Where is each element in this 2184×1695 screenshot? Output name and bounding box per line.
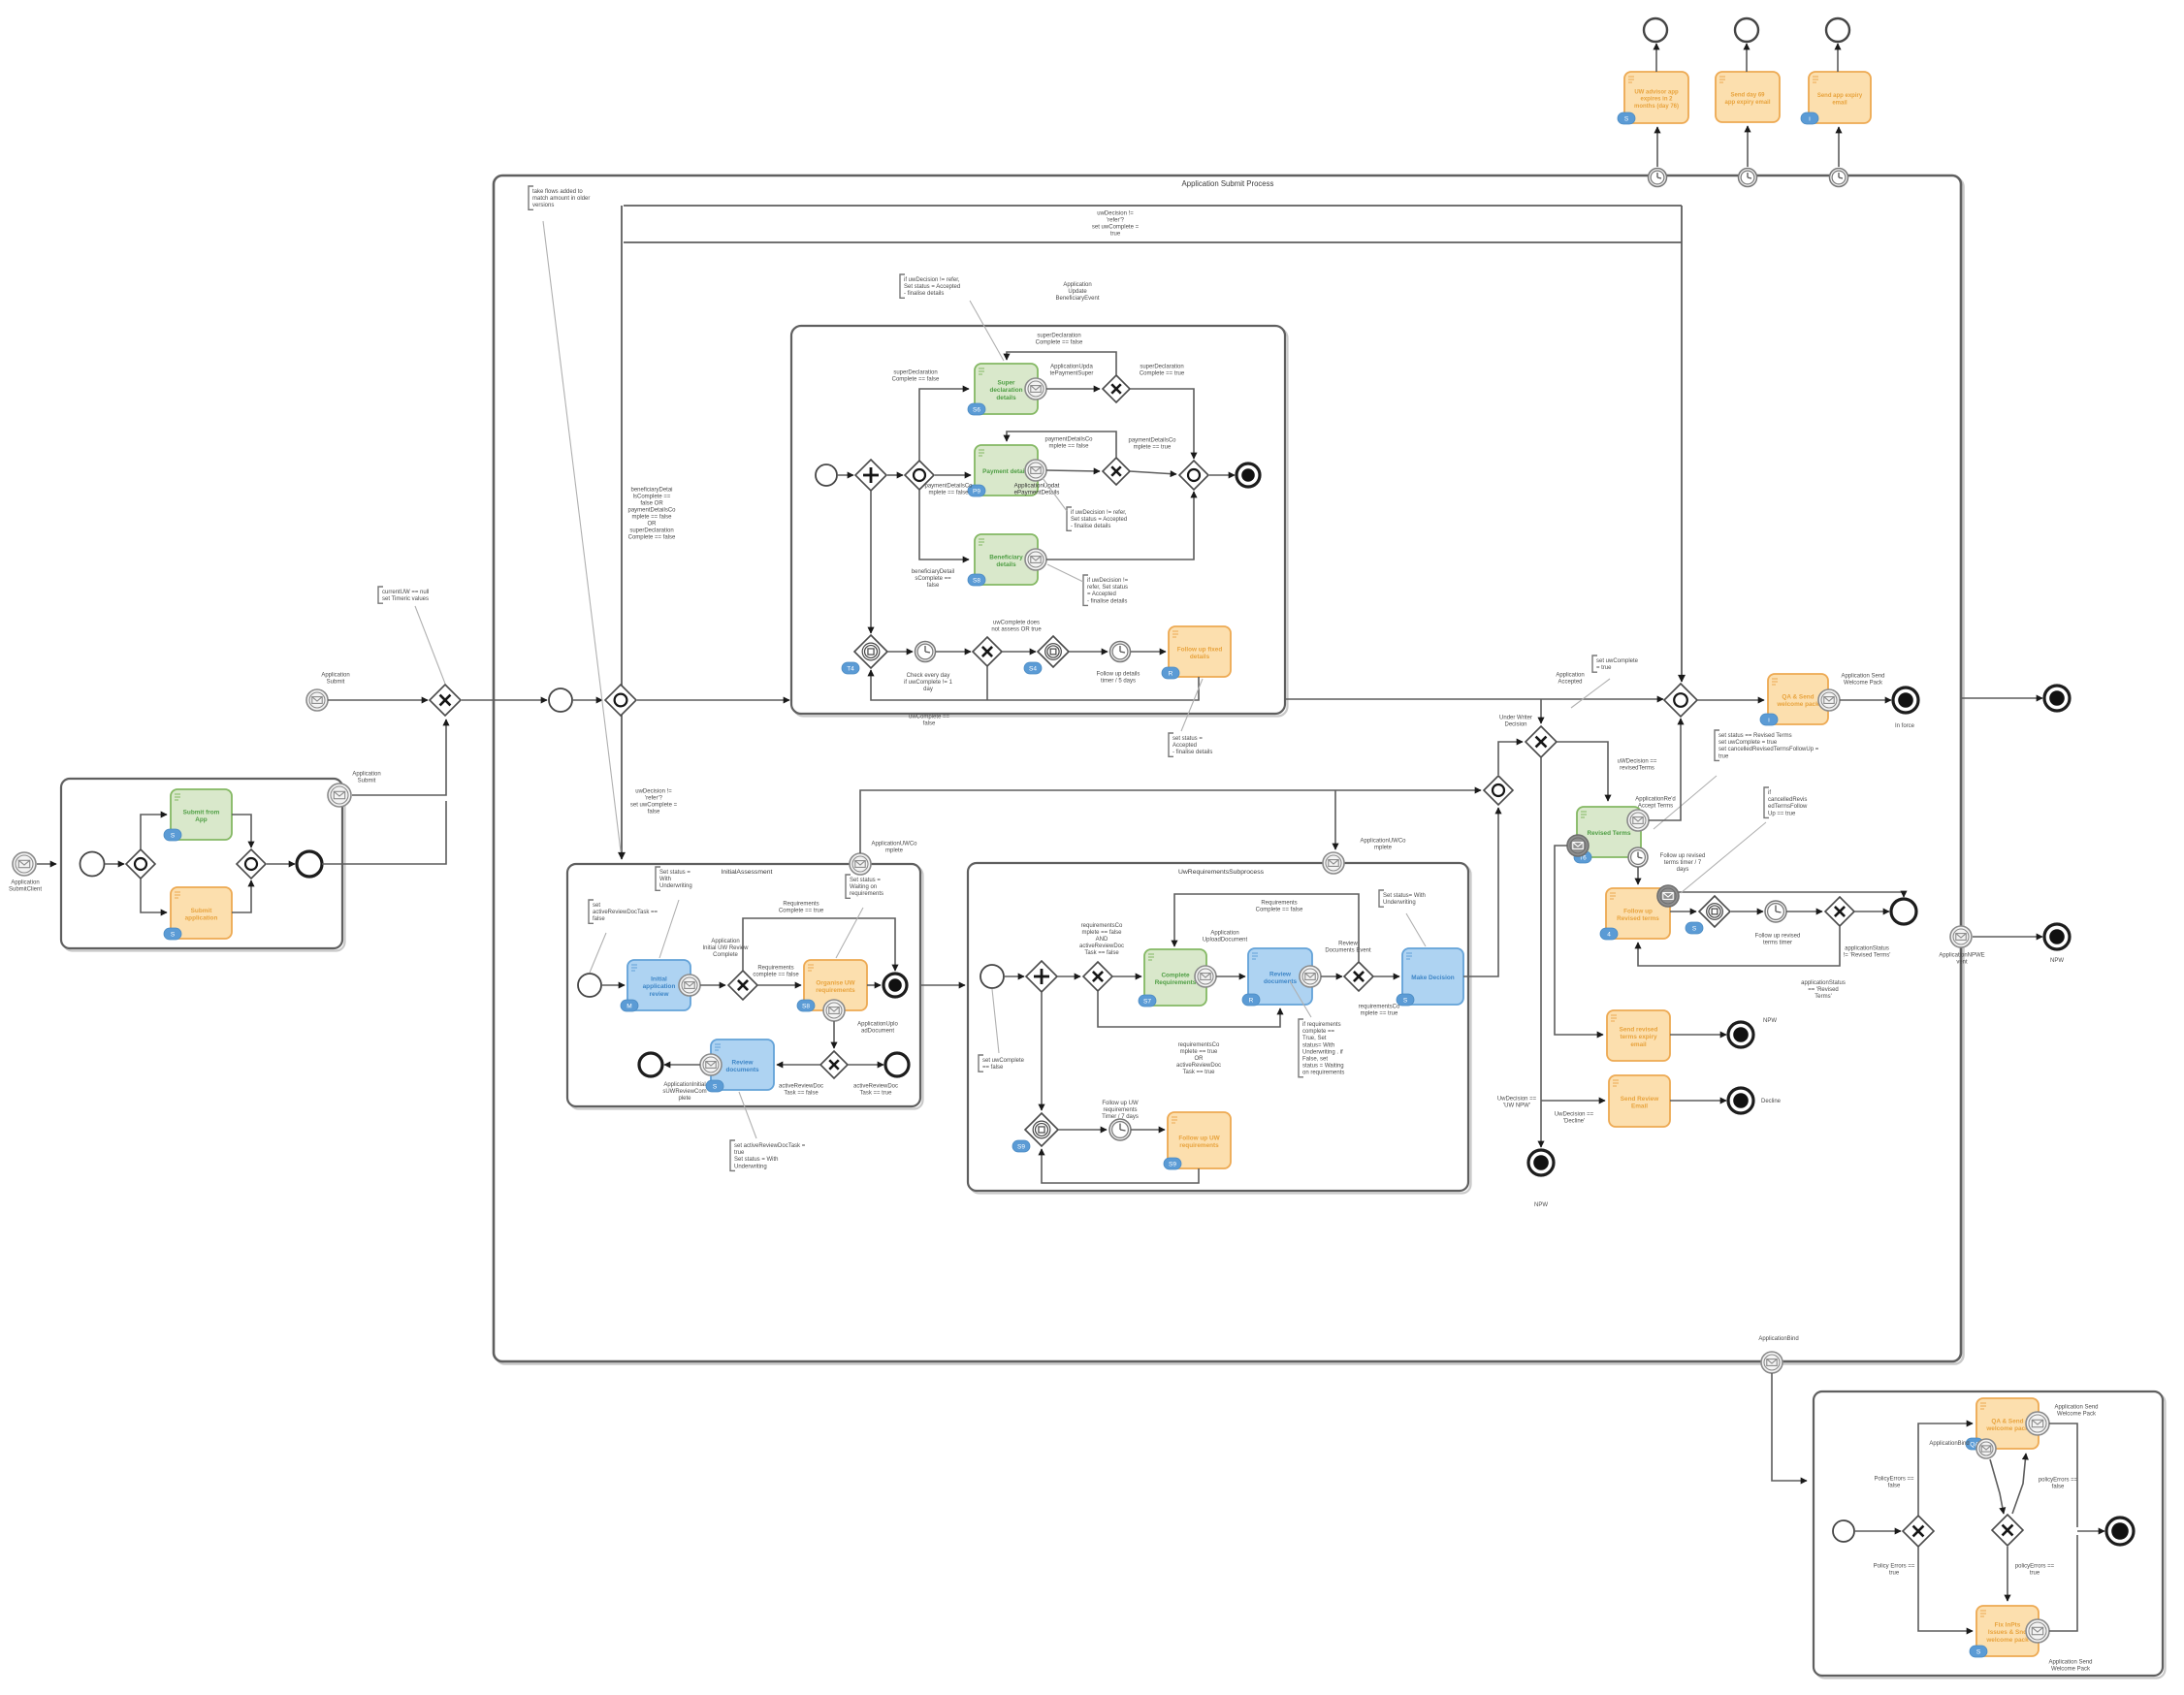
wire decline input (1541, 1100, 1605, 1102)
end event In force (1893, 688, 1918, 713)
message boundary UwReq top (1323, 852, 1344, 874)
wire UwReq loop bottom (1098, 991, 1280, 1027)
wire IA boundary up across (860, 790, 1481, 853)
wire BR xor down (1918, 1547, 1973, 1631)
wire UwReq timer to follow (1131, 1129, 1165, 1131)
gateway xor UwReq 2 (1344, 962, 1373, 991)
wire bottom loop upper (871, 670, 1199, 700)
annotation if cancelledRevisedTermsFollowUp (1764, 787, 1769, 817)
message start event Application Submit main (306, 689, 328, 711)
svg-text:Follow up UWrequirements: Follow up UWrequirements (1178, 1135, 1220, 1149)
message boundary Follow up Revised dark (1657, 885, 1679, 907)
wire UwReq and down (1041, 992, 1043, 1110)
svg-text:superDeclarationComplete == tr: superDeclarationComplete == true (1140, 365, 1185, 377)
timer UwReq (1109, 1119, 1131, 1140)
wire UwReq and to xor (1057, 975, 1080, 977)
assoc take flows to lower (543, 221, 621, 851)
gateway join left box (237, 849, 266, 879)
wire IA xor lower right (848, 1064, 883, 1066)
annotation Set status Waiting on requirements IA (846, 875, 851, 898)
annotation set uwComplete false UwReq (979, 1055, 983, 1071)
svg-text:applicationStatus!= 'Revised T: applicationStatus!= 'Revised Terms' (1844, 946, 1891, 959)
wire merge to end upper (1209, 474, 1235, 476)
annotation if uwDecision refer accepted 1 (1067, 507, 1072, 530)
message boundary UwReq complete (1195, 966, 1216, 987)
task Submit from App (164, 789, 232, 841)
gateway event UwReq (1025, 1113, 1058, 1146)
wire loop row1 (1007, 352, 1116, 375)
wire evtB to timerB (1069, 651, 1108, 653)
wire and down to event gw (870, 491, 872, 633)
svg-text:ApplicationBind: ApplicationBind (1758, 1336, 1798, 1342)
wire green to join (232, 815, 251, 847)
svg-text:Follow up UWrequirementsTimer: Follow up UWrequirementsTimer / 7 days (1102, 1101, 1139, 1120)
task Organise UW requirements (797, 960, 867, 1011)
annotation Set status With Underwriting IA (656, 867, 660, 890)
message boundary Revised Terms left dark (1567, 835, 1589, 856)
message start event Application SubmitClient (13, 852, 36, 876)
wire task to E2 (1746, 44, 1748, 72)
wire loop row2 (1007, 432, 1116, 458)
annotation set activeReviewDocTask true IA (730, 1140, 735, 1170)
wire msg to xor main (328, 699, 428, 701)
wire IA review docs to end (664, 1064, 700, 1066)
end event BR (2106, 1518, 2134, 1545)
wire BR merge to end (2077, 1530, 2104, 1532)
svg-text:i: i (1809, 116, 1810, 123)
wire UwReq start to and (1004, 975, 1024, 977)
assoc note2 to env3 (1047, 564, 1083, 582)
svg-text:QA & Sendwelcome pack: QA & Sendwelcome pack (1985, 1418, 2029, 1432)
assoc revised note (1654, 776, 1717, 829)
message boundary ApplicationBind (1761, 1352, 1783, 1373)
end event NPW bottom (1528, 1150, 1554, 1175)
wire xor bottom drop (986, 666, 988, 700)
wire revised loop back (1638, 926, 1840, 966)
task Submit application (164, 887, 232, 940)
task Beneficiary details (968, 534, 1038, 586)
wire revised env to inclusive east (1649, 719, 1681, 820)
wire drop to uw decision xor (1540, 699, 1542, 723)
assoc note to IA start (590, 933, 606, 973)
message boundary QA task (1818, 689, 1840, 711)
message boundary IA review docs (700, 1054, 722, 1075)
wire evtA to timer (887, 651, 913, 653)
wire right frame vertical (1681, 206, 1683, 682)
end event revised (1891, 899, 1916, 924)
svg-text:QA & Sendwelcome pack: QA & Sendwelcome pack (1776, 693, 1819, 708)
assoc follow task to note (1181, 679, 1203, 731)
svg-text:S: S (171, 833, 176, 840)
task Revised Terms (1574, 807, 1641, 863)
assoc note to review docs (739, 1092, 756, 1138)
subprocess left submit box (64, 782, 345, 951)
timer boundary Revised Terms (1628, 847, 1648, 867)
wire inclusive to upper box (637, 699, 789, 701)
task Complete Requirements (1139, 949, 1206, 1007)
message boundary BR bottom task (2026, 1619, 2049, 1643)
timer upper A (915, 642, 936, 662)
svg-text:requirementsComplete == true: requirementsComplete == true (1359, 1005, 1400, 1017)
svg-text:Requirementscomplete == false: Requirementscomplete == false (753, 966, 799, 978)
task Follow up fixed details (1162, 626, 1231, 679)
wire BR start to xor (1854, 1530, 1901, 1532)
svg-text:Payment details: Payment details (982, 468, 1030, 475)
wire ApplicationBind down (1772, 1373, 1807, 1481)
annotation set activeReviewDocTask false (589, 900, 594, 923)
wire xor into big rect (462, 699, 547, 701)
task Send app expiry email (1801, 72, 1871, 124)
message boundary row3 (1025, 549, 1046, 570)
subprocess bottom right box (1816, 1394, 2166, 1679)
task Review documents UwReq (1242, 948, 1312, 1006)
timer boundary T2 (1739, 169, 1757, 187)
message boundary Application Submit (328, 784, 351, 807)
start event upper box (816, 464, 837, 486)
svg-text:P9: P9 (973, 489, 980, 496)
wire left start to gw (105, 863, 124, 865)
svg-text:S: S (1976, 1649, 1981, 1656)
wire IA to UwReq (920, 984, 965, 986)
gateway xor BR 1 (1903, 1516, 1934, 1547)
wire gw down to orange (141, 879, 167, 912)
wire IA start to task (601, 984, 625, 986)
end event E2 top (1735, 18, 1758, 42)
svg-text:paymentDetailsComplete == true: paymentDetailsComplete == true (1128, 438, 1176, 451)
task Payment details (968, 445, 1038, 496)
wire task to E1 (1655, 44, 1657, 72)
svg-text:R: R (1169, 671, 1173, 678)
svg-text:T4: T4 (847, 666, 854, 673)
assoc notetop to task1 (970, 301, 1004, 361)
end event NPW right (2044, 924, 2070, 949)
start event IA (578, 974, 601, 997)
end event right top (2044, 686, 2070, 711)
annotation set status accepted finalise (1169, 733, 1173, 756)
assoc note to IA task (659, 900, 679, 958)
wire BR xor2 to top task (2012, 1454, 2026, 1514)
start event UwReq (980, 965, 1004, 988)
gateway inclusive merge upper (1179, 461, 1208, 490)
wire left frame vertical (621, 206, 623, 859)
task Follow up Revised terms (1600, 888, 1670, 940)
task Review documents IA (706, 1039, 774, 1092)
wire left box end to xor (322, 801, 446, 864)
wire UwReq green env to blue (1216, 975, 1245, 977)
svg-text:S: S (1692, 926, 1697, 933)
svg-text:beneficiaryDetailsComplete ==f: beneficiaryDetailsComplete ==false ORpay… (627, 488, 676, 541)
gateway inclusive right (1484, 776, 1513, 805)
annotation set status Revised Terms (1715, 730, 1719, 760)
svg-text:RequirementsComplete == false: RequirementsComplete == false (1256, 901, 1303, 913)
svg-text:Revised Terms: Revised Terms (1588, 830, 1631, 837)
end event IA main (883, 974, 907, 997)
wire UwReq follow loop (1042, 1149, 1199, 1183)
assoc note1 to env2 (1043, 478, 1067, 511)
wire join to end (267, 863, 295, 865)
svg-text:NPW: NPW (1763, 1018, 1777, 1024)
task Initial application review (621, 960, 691, 1011)
svg-text:S: S (1624, 116, 1629, 123)
svg-text:S4: S4 (1029, 666, 1037, 673)
start event left box (80, 852, 105, 877)
message boundary row2 (1025, 460, 1046, 481)
task Follow up UW requirements (1164, 1112, 1231, 1169)
svg-text:S9: S9 (1017, 1144, 1025, 1151)
annotation if uwDecision refer accepted top (900, 274, 905, 298)
wire timer to xor bottom (936, 651, 971, 653)
svg-text:S8: S8 (973, 578, 980, 585)
task Fix policy errors send welcome BR (1970, 1606, 2039, 1657)
assoc note to review UwReq (1290, 981, 1311, 1017)
gateway inclusive split upper (905, 461, 934, 490)
wire inclusive east to QA (1697, 699, 1764, 701)
svg-text:Application SendWelcome Pack: Application SendWelcome Pack (2054, 1405, 2098, 1418)
wire expiry to NPW end (1670, 1034, 1726, 1036)
message event ApplicationNPWEvent (1950, 926, 1972, 947)
assoc cancelled note (1681, 822, 1766, 893)
wire xor UWD down to NPW (1540, 757, 1542, 1147)
message boundary IA review (679, 975, 700, 996)
gateway parallel UwReq (1026, 961, 1057, 992)
wire IA organise env down (833, 1021, 835, 1048)
svg-text:S7: S7 (1143, 999, 1151, 1006)
annotation if requirements complete UwReq (1299, 1019, 1303, 1077)
wire or to row3 (919, 490, 969, 560)
wire right edge to end E4 (1961, 697, 2042, 699)
wire BR top task east (2049, 1423, 2077, 1527)
svg-text:UwRequirementsSubprocess: UwRequirementsSubprocess (1178, 869, 1265, 876)
end event Decline (1728, 1088, 1753, 1113)
svg-text:4: 4 (1607, 932, 1611, 939)
wire IA organise to end (867, 984, 881, 986)
assoc annotation to xor (415, 606, 445, 684)
wire BR xor up (1918, 1423, 1973, 1516)
wire xor revised to end (1854, 911, 1889, 912)
end event left box (297, 851, 322, 877)
svg-text:S: S (713, 1084, 718, 1091)
wire T1 to task (1656, 127, 1658, 167)
svg-text:S9: S9 (1169, 1162, 1176, 1168)
svg-text:S: S (1403, 998, 1408, 1005)
timer boundary T1 (1649, 169, 1667, 187)
svg-text:activeReviewDocTask == true: activeReviewDocTask == true (853, 1084, 898, 1097)
wire IA xor lower left (777, 1064, 820, 1066)
wire timerB to follow task (1131, 651, 1166, 653)
svg-text:Organise UWrequirements: Organise UWrequirements (816, 979, 855, 994)
svg-text:ApplicationUpdatePaymentSuper: ApplicationUpdatePaymentSuper (1050, 365, 1094, 377)
wire NPW event to end (1973, 936, 2042, 938)
svg-text:ApplicationUpdatePaymentDetail: ApplicationUpdatePaymentDetails (1014, 482, 1060, 496)
svg-text:ApplicationAccepted: ApplicationAccepted (1556, 673, 1584, 686)
wire BR xor2 down (2007, 1547, 2008, 1601)
assoc note to make decision (1406, 913, 1426, 946)
end event NPW mid (1728, 1022, 1753, 1047)
gateway xor Under Writer Decision (1526, 726, 1557, 757)
wire upper start to and (837, 474, 853, 476)
svg-text:ApplicationUploadDocument: ApplicationUploadDocument (857, 1022, 898, 1035)
svg-text:Application Submit Process: Application Submit Process (1182, 179, 1274, 188)
gateway xor UwReq (1083, 962, 1112, 991)
wire IA env to xor (700, 984, 725, 986)
svg-text:NPW: NPW (2050, 958, 2064, 964)
message boundary Revised Terms right (1627, 810, 1649, 831)
svg-text:superDeclarationComplete == fa: superDeclarationComplete == false (892, 370, 940, 383)
svg-text:M: M (626, 1004, 631, 1010)
wire inclusive to xor UWD (1498, 742, 1523, 775)
annotation take flows added (529, 186, 533, 209)
wire xor to evtB (1002, 651, 1036, 653)
wire or to row1 (919, 389, 969, 461)
assoc note to accepted wire (1571, 679, 1610, 708)
svg-text:InitialAssessment: InitialAssessment (722, 869, 773, 876)
wire orange to join (232, 880, 251, 912)
wire row1 env to xor (1046, 388, 1100, 390)
gateway xor revised (1825, 897, 1854, 926)
svg-text:activeReviewDocTask == false: activeReviewDocTask == false (779, 1084, 823, 1097)
wire dark env to expiry task (1555, 846, 1603, 1035)
wire UwReq blue env to xor2 (1321, 975, 1342, 977)
wire task to E3 (1837, 44, 1839, 72)
wire uwDecision loop (624, 241, 1682, 243)
gateway xor row1 (1103, 375, 1130, 402)
start event main (549, 688, 572, 712)
svg-text:uwComplete doesnot assess OR t: uwComplete doesnot assess OR true (991, 621, 1042, 633)
wire revised timer down (1637, 867, 1639, 884)
wire T3 to task (1838, 127, 1840, 167)
wire Make Decision east (1463, 808, 1498, 976)
task Super declaration details (968, 364, 1038, 415)
message boundary ApplicationUWComplete IA (850, 853, 871, 875)
gateway event upper A (854, 635, 887, 668)
end event IA left (639, 1053, 662, 1076)
wire IA loop requirements true (743, 918, 895, 971)
wire branch to UwReq msg (1334, 790, 1336, 849)
wire start to inclusive main (573, 699, 602, 701)
svg-text:Application SendWelcome Pack: Application SendWelcome Pack (2048, 1660, 2092, 1673)
message boundary BR top task bind (1976, 1439, 1996, 1458)
svg-text:RequirementsComplete == true: RequirementsComplete == true (779, 902, 824, 914)
svg-text:Send day 69app expiry email: Send day 69app expiry email (1724, 92, 1770, 105)
svg-text:NPW: NPW (1534, 1202, 1548, 1208)
wire row3 env to merge (1046, 492, 1194, 560)
task Make Decision (1397, 948, 1463, 1006)
svg-text:Follow up detailstimer / 5 day: Follow up detailstimer / 5 days (1097, 672, 1140, 685)
subprocess beneficiary update box (794, 329, 1288, 717)
message boundary IA organise (823, 1000, 845, 1021)
start event BR (1833, 1520, 1854, 1542)
timer boundary T3 (1830, 169, 1848, 187)
end event E1 top (1644, 18, 1667, 42)
gateway xor IA (728, 971, 757, 1000)
task QA Send welcome pack BR (1966, 1398, 2039, 1450)
svg-text:ApplicationRe'dAccept Terms: ApplicationRe'dAccept Terms (1635, 797, 1676, 810)
svg-text:ApplicationSubmitClient: ApplicationSubmitClient (9, 880, 42, 893)
svg-text:Make Decision: Make Decision (1411, 975, 1454, 981)
timer upper B (1110, 642, 1131, 662)
gateway xor upper bottom (973, 637, 1002, 666)
wire UwReq xor2 to make decision (1373, 975, 1399, 977)
annotation Set status With Underwriting UwReq (1379, 890, 1384, 907)
svg-text:paymentDetailsComplete == fals: paymentDetailsComplete == false (924, 484, 973, 496)
svg-text:superDeclarationComplete == fa: superDeclarationComplete == false (1036, 334, 1083, 346)
wire review email to decline end (1670, 1100, 1726, 1102)
wire QA env to In force (1840, 699, 1891, 701)
gateway xor row2 (1103, 458, 1130, 485)
end event E3 top (1826, 18, 1849, 42)
annotation currentUW null set Timeric values (378, 587, 383, 603)
annotation set uwComplete true right (1592, 656, 1597, 672)
svg-text:UW advisor appexpires in 2mont: UW advisor appexpires in 2months (day 76… (1634, 89, 1679, 110)
task QA and Send welcome pack (1760, 674, 1828, 725)
gateway xor IA lower (820, 1051, 848, 1078)
timer revised (1765, 901, 1786, 922)
task Send revised terms expiry email (1607, 1010, 1670, 1061)
message boundary UwReq review (1300, 966, 1321, 987)
svg-text:Application SendWelcome Pack: Application SendWelcome Pack (1841, 674, 1884, 687)
gateway xor BR 2 (1992, 1515, 2023, 1546)
wire or to row2 (935, 474, 971, 476)
assoc note to UwReq start (992, 989, 999, 1053)
wire boundary msg to xor (352, 720, 446, 795)
message boundary row1 (1025, 378, 1046, 400)
task UW advisor app expires (1618, 72, 1688, 124)
svg-text:ApplicationBind: ApplicationBind (1929, 1441, 1969, 1447)
wire upper box to inclusive east (1285, 698, 1663, 700)
gateway XOR main entry (430, 685, 461, 716)
wire msgstart to left box (37, 863, 56, 865)
gateway event upper B (1038, 636, 1069, 667)
task Send Review Email (1609, 1075, 1670, 1127)
end event upper box (1237, 464, 1260, 487)
container Application Submit Process (497, 178, 1964, 1364)
wire BR bind env to xor2 (1990, 1459, 2004, 1514)
svg-text:i: i (1768, 718, 1769, 724)
wire and to or upper (887, 474, 903, 476)
svg-text:Decline: Decline (1761, 1099, 1782, 1104)
wire BR bottom task east (2049, 1535, 2077, 1631)
task Send day 69 app expiry email (1716, 72, 1780, 122)
wire gw up to green (141, 815, 167, 849)
gateway inclusive merge east (1664, 684, 1697, 717)
annotation if uwDecision refer accepted 2 (1083, 575, 1088, 605)
assoc note to organise (836, 908, 863, 958)
wire UwReq evt to timer (1058, 1129, 1107, 1131)
svg-text:currentUW == nullset Timeric v: currentUW == nullset Timeric values (382, 590, 429, 602)
wire row2 env to xor (1046, 470, 1100, 471)
svg-text:S8: S8 (802, 1004, 810, 1010)
subprocess InitialAssessment box (570, 867, 923, 1109)
wire evt gw to timer revised (1731, 911, 1763, 912)
svg-text:uWDecision ==revisedTerms: uWDecision ==revisedTerms (1618, 759, 1657, 772)
wire timer revised to xor (1786, 911, 1822, 912)
wire UwReq xor to green (1112, 975, 1141, 977)
wire inner frame top (624, 205, 1682, 207)
gateway event revised (1699, 896, 1730, 927)
svg-text:paymentDetailsComplete == fals: paymentDetailsComplete == false (1044, 437, 1093, 450)
wire follow revised to evt gw (1670, 911, 1696, 912)
wire xor1 to merge (1130, 389, 1194, 459)
wire xor UWD to revised terms (1557, 742, 1608, 801)
svg-text:In force: In force (1895, 723, 1915, 729)
message boundary BR top task (2026, 1412, 2049, 1435)
wire T2 to task (1747, 126, 1749, 167)
wire UwReq loop top (1174, 894, 1359, 962)
svg-text:S6: S6 (973, 407, 980, 414)
svg-text:R: R (1249, 998, 1254, 1005)
gateway inclusive main (605, 685, 636, 716)
end event IA right (885, 1053, 909, 1076)
